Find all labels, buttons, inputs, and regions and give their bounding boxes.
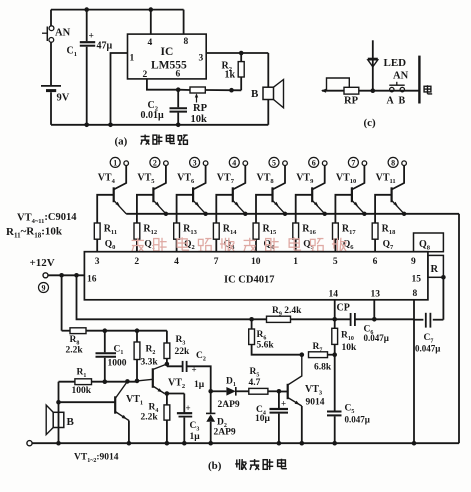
capacitor C1 47u: [67, 10, 113, 125]
svg-text:10μ: 10μ: [255, 414, 271, 424]
svg-text:4.7: 4.7: [249, 378, 261, 388]
svg-text:8: 8: [413, 289, 418, 299]
pin 4: [174, 257, 179, 267]
resistor R3 22k: [164, 331, 190, 367]
svg-text:15: 15: [412, 275, 422, 285]
capacitor C3 1u (b): [177, 394, 200, 446]
svg-text:22k: 22k: [175, 347, 191, 357]
svg-text:4: 4: [148, 38, 153, 48]
resistor R12 10k: [134, 223, 157, 252]
svg-text:3: 3: [193, 159, 197, 168]
resistor R7 6.8k: [309, 342, 338, 373]
svg-text:4: 4: [174, 257, 179, 267]
pin 15: [412, 275, 422, 285]
svg-text:LED: LED: [384, 57, 407, 69]
svg-text:16: 16: [87, 275, 97, 285]
node Q6: [343, 240, 354, 252]
svg-text:RP: RP: [193, 103, 208, 114]
svg-text:9V: 9V: [57, 93, 70, 104]
svg-text:4: 4: [232, 159, 236, 168]
transistor VT8: [256, 157, 287, 223]
transistor VT4: [97, 157, 128, 223]
node Q8 box: [414, 233, 444, 252]
svg-text:RP: RP: [344, 96, 359, 107]
pin 5: [333, 257, 338, 267]
svg-text:1: 1: [113, 159, 117, 168]
wire pin 13 drop: [373, 300, 375, 320]
svg-text:14: 14: [329, 290, 339, 300]
transistor VT2: [137, 364, 185, 394]
resistor R18 10k: [372, 223, 396, 252]
wire top rail (a): [51, 7, 184, 12]
capacitor C4 10u: [255, 389, 288, 446]
svg-text:+: +: [281, 399, 286, 409]
pin 14: [329, 290, 339, 300]
capacitor C1 1000 (b): [96, 331, 127, 382]
watermark: [132, 237, 347, 251]
svg-text:2.2k: 2.2k: [66, 346, 84, 356]
speaker B (b): [46, 382, 74, 446]
svg-text:B: B: [399, 96, 406, 107]
capacitor C5 0.047u: [327, 404, 370, 446]
transistor VT10: [335, 157, 366, 223]
wire right edge: [458, 214, 460, 443]
transistor VT3: [279, 355, 325, 446]
switch AN (a): [42, 10, 71, 43]
node Q4: [264, 240, 275, 252]
ground bar di: [419, 56, 432, 104]
pin 16: [87, 275, 97, 285]
note VT4-11 C9014: [6, 212, 77, 240]
transistor VT6: [177, 157, 208, 223]
terminal +12V: [30, 257, 55, 293]
svg-text:IC CD4017: IC CD4017: [224, 275, 274, 286]
resistor R11 10k: [94, 223, 117, 252]
svg-text:R9 2.4k: R9 2.4k: [272, 306, 302, 318]
resistor R2 3.3k (b): [134, 331, 158, 381]
svg-text:0.01μ: 0.01μ: [141, 110, 165, 121]
wire pin 4 drop: [150, 10, 152, 34]
svg-text:3: 3: [199, 54, 204, 64]
svg-text:B: B: [67, 416, 75, 428]
svg-text:47μ: 47μ: [97, 41, 113, 52]
svg-text:2AP9: 2AP9: [214, 428, 236, 438]
svg-text:1: 1: [293, 257, 298, 267]
wire pin 8 drop: [412, 300, 417, 446]
caption VT1-2 9014: [74, 453, 119, 465]
potentiometer RP (c): [327, 78, 359, 107]
resistor R2 1k (a): [222, 53, 245, 90]
svg-text:9: 9: [42, 284, 46, 293]
pin 1: [293, 257, 298, 267]
pin 3: [95, 257, 100, 267]
IC U2 CD4017: [84, 252, 428, 300]
svg-text:1000: 1000: [108, 359, 127, 369]
svg-text:9014: 9014: [306, 398, 325, 408]
svg-text:7: 7: [351, 159, 355, 168]
resistor R5 4.7: [249, 367, 279, 394]
wire pin 2: [147, 79, 181, 92]
svg-text:A: A: [387, 96, 395, 107]
wire bottom rail (a): [51, 123, 268, 128]
svg-text:0.047μ: 0.047μ: [345, 415, 370, 425]
pin 10: [251, 257, 261, 267]
wire R1 node: [59, 379, 140, 384]
svg-text:6: 6: [373, 257, 378, 267]
svg-text:8: 8: [391, 159, 395, 168]
node Q3: [224, 240, 235, 252]
capacitor C2 0.01u (a): [141, 90, 188, 125]
svg-text:2AP9: 2AP9: [218, 400, 240, 410]
transistor VT1: [59, 381, 144, 445]
resistor R16 10k: [293, 223, 317, 252]
resistor R17 10k: [333, 223, 357, 252]
diode D1 2AP9: [208, 377, 248, 411]
svg-text:R: R: [431, 264, 439, 275]
svg-text:2.2k: 2.2k: [141, 413, 159, 423]
pin 7: [214, 257, 219, 267]
potentiometer RP 10k (a): [178, 87, 241, 125]
svg-text:2: 2: [153, 159, 157, 168]
svg-text:CP: CP: [337, 303, 350, 314]
svg-text:3: 3: [95, 257, 100, 267]
svg-text:1k: 1k: [225, 70, 236, 81]
wire pin 1: [111, 53, 128, 125]
IC U1 LM555: [128, 34, 207, 80]
resistor R10 10k: [332, 319, 357, 411]
transistor VT11: [375, 157, 406, 223]
svg-text:AN: AN: [393, 71, 409, 82]
wire +12V feed: [48, 273, 84, 278]
svg-text:1μ: 1μ: [190, 432, 201, 442]
svg-text:3.3k: 3.3k: [141, 358, 159, 368]
resistor R14 10k: [213, 223, 237, 252]
wire reset line: [441, 275, 446, 320]
transistor VT5: [137, 157, 168, 223]
svg-text:1μ: 1μ: [194, 380, 205, 390]
switch AN (c): [387, 71, 409, 107]
resistor R9 2.4k: [267, 306, 303, 322]
svg-text:0.047μ: 0.047μ: [415, 344, 440, 354]
svg-text:IC: IC: [161, 46, 174, 58]
node Q7: [383, 240, 394, 252]
node Q0: [105, 240, 116, 252]
resistor R13 10k: [174, 223, 198, 252]
svg-text:6.8k: 6.8k: [314, 363, 332, 373]
wire pin 3: [206, 51, 268, 56]
svg-text:8: 8: [184, 37, 189, 47]
svg-text:B: B: [251, 88, 259, 100]
svg-text:1: 1: [130, 54, 135, 64]
caption (b) jie-shou-dian-lu: [208, 459, 287, 472]
node CP: [337, 303, 350, 314]
resistor R8 2.2k feed: [62, 275, 167, 355]
svg-text:7: 7: [214, 257, 219, 267]
svg-text:13: 13: [371, 290, 381, 300]
svg-text:6: 6: [312, 159, 316, 168]
transistor VT7: [216, 157, 247, 223]
svg-text:2: 2: [134, 257, 139, 267]
svg-text:5.6k: 5.6k: [257, 341, 275, 351]
battery 9V: [41, 42, 70, 125]
resistor R6 5.6k: [249, 319, 304, 357]
svg-text:100k: 100k: [72, 386, 92, 396]
svg-text:LM555: LM555: [151, 60, 187, 72]
pin 9: [411, 257, 416, 267]
pin 8: [413, 289, 418, 299]
resistor R4 2.2k: [141, 394, 170, 446]
svg-text:(a): (a): [115, 136, 128, 148]
svg-text:2: 2: [143, 70, 148, 80]
svg-text:10: 10: [251, 257, 261, 267]
svg-text:AN: AN: [55, 28, 71, 39]
svg-text:10k: 10k: [342, 343, 358, 353]
svg-text:VT1~2:9014: VT1~2:9014: [74, 453, 119, 465]
wire bottom rail (b): [27, 441, 459, 446]
svg-text:10k: 10k: [191, 114, 208, 125]
resistor R1 100k: [72, 368, 92, 396]
wire pin 14 drop: [334, 300, 336, 320]
node Q2: [184, 240, 195, 252]
wire +12V rail: [77, 275, 415, 321]
LED: [368, 40, 406, 90]
svg-text:0.047μ: 0.047μ: [364, 333, 389, 343]
wire main (c): [321, 88, 419, 93]
diode D2 2AP9: [206, 391, 236, 445]
pin 6: [373, 257, 378, 267]
svg-text:+: +: [192, 365, 197, 375]
svg-text:+: +: [186, 403, 191, 413]
capacitor C7 0.047u: [414, 313, 443, 354]
caption (a) fa-she-dian-lu: [115, 134, 188, 147]
speaker B (a): [251, 53, 284, 125]
capacitor C2 1u (b): [167, 351, 211, 391]
svg-text:(c): (c): [364, 117, 377, 129]
svg-text:+: +: [89, 32, 94, 42]
pin 13: [371, 290, 381, 300]
capacitor C6 0.047u: [351, 313, 389, 343]
node R reset box: [428, 255, 444, 277]
svg-text:5: 5: [333, 257, 338, 267]
caption (c): [364, 117, 377, 129]
svg-text:9: 9: [411, 257, 416, 267]
svg-text:5: 5: [272, 159, 276, 168]
node Q5: [303, 240, 314, 252]
pin 2: [134, 257, 139, 267]
resistor R15 10k: [253, 223, 277, 252]
wire emitter bus: [126, 212, 459, 216]
svg-text:6: 6: [176, 70, 181, 80]
svg-text:(b): (b): [208, 460, 222, 472]
svg-text:+12V: +12V: [30, 257, 55, 269]
wire pin 8 drop: [183, 10, 185, 34]
transistor VT9: [296, 157, 327, 223]
node Q1: [144, 240, 155, 252]
wire VT2 emitter: [165, 391, 185, 396]
